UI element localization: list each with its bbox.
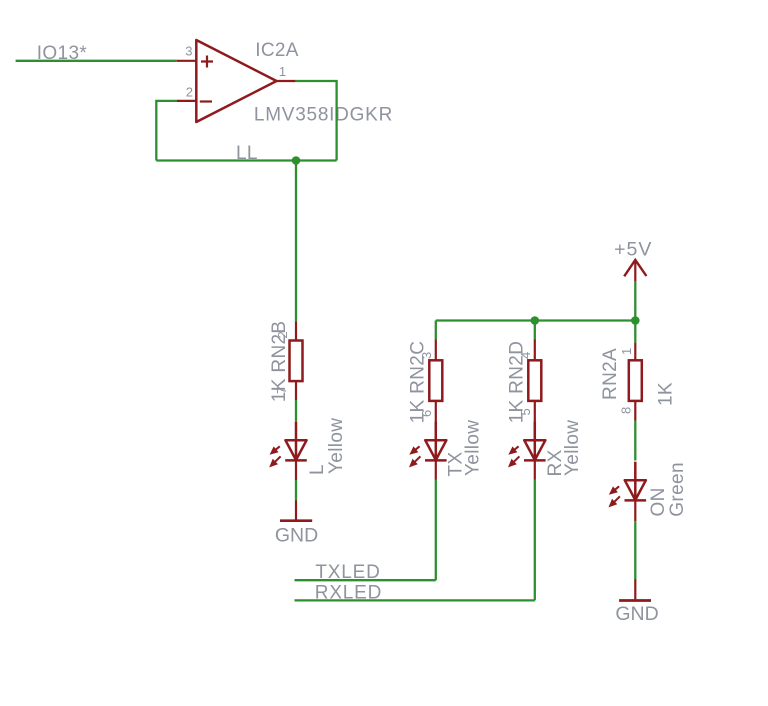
RN2D bottom pin stub	[534, 401, 536, 440]
wire TX LED down	[435, 480, 437, 581]
op-amp IC2A triangle	[196, 40, 276, 122]
junction bus / RN2D column	[531, 316, 540, 325]
svg-text:RN2A: RN2A	[600, 348, 621, 400]
svg-text:8: 8	[619, 407, 634, 414]
wire RN2A to LED ON	[634, 421, 636, 461]
svg-text:RXLED: RXLED	[315, 582, 382, 603]
ground GND pin (L branch)	[295, 501, 297, 520]
svg-text:Yellow: Yellow	[463, 420, 484, 476]
svg-text:3: 3	[419, 352, 434, 359]
wire net LL feedback left segment	[156, 101, 177, 161]
resistor RN2D	[528, 360, 541, 401]
resistor RN2A	[629, 360, 642, 401]
op-amp plus sign	[201, 56, 213, 68]
power symbol +5V arrow	[624, 260, 646, 276]
RN2B top pin stub	[295, 322, 297, 341]
wire net IO13*	[16, 60, 177, 62]
RN2D top pin stub	[534, 340, 536, 361]
svg-text:IC2A: IC2A	[255, 40, 299, 61]
LED ON cathode stub	[634, 500, 636, 521]
svg-text:TXLED: TXLED	[315, 562, 380, 583]
power symbol +5V stem	[634, 260, 636, 281]
wire junction to RN2A	[634, 321, 636, 343]
svg-text:7: 7	[274, 387, 289, 394]
resistor RN2B	[290, 341, 303, 382]
svg-text:1: 1	[279, 64, 286, 79]
svg-text:2: 2	[186, 85, 193, 100]
LED RX (yellow)	[509, 422, 546, 467]
svg-text:3: 3	[185, 44, 192, 59]
LED TX (yellow)	[410, 422, 447, 467]
op-amp minus sign	[200, 100, 212, 102]
svg-text:IO13*: IO13*	[37, 43, 88, 64]
wire net TXLED horizontal	[295, 579, 436, 581]
RN2A bottom pin stub	[634, 401, 636, 421]
wire junction to RN2B	[295, 161, 297, 323]
svg-text:4: 4	[518, 352, 533, 359]
svg-text:2: 2	[275, 331, 290, 338]
wire bus corner down to RN2C	[435, 321, 437, 340]
LED ON (green)	[609, 462, 646, 507]
svg-text:GND: GND	[615, 603, 658, 625]
svg-text:1: 1	[619, 348, 634, 355]
ground bar (L branch)	[280, 519, 312, 522]
svg-text:+5V: +5V	[614, 239, 652, 261]
wire +5V down to junction	[634, 281, 636, 321]
junction bus / +5V column	[631, 316, 640, 325]
wire net RXLED horizontal	[295, 599, 535, 601]
wire net LL bottom segment	[156, 159, 336, 161]
pin 3 stub (non-inverting input)	[177, 60, 197, 62]
RN2A top pin stub	[634, 343, 636, 361]
svg-text:5: 5	[518, 408, 533, 415]
wire bus to RN2D	[534, 321, 536, 340]
svg-text:Yellow: Yellow	[562, 420, 583, 476]
pin 1 stub (output)	[277, 80, 296, 82]
svg-text:L: L	[307, 464, 328, 475]
svg-text:GND: GND	[275, 524, 318, 546]
svg-text:LMV358IDGKR: LMV358IDGKR	[254, 105, 393, 126]
junction at LL / RN2B column	[292, 156, 301, 165]
RN2B bottom pin stub	[295, 381, 297, 400]
wire net LL right vertical segment	[296, 81, 337, 161]
svg-text:Yellow: Yellow	[326, 418, 347, 474]
pin 2 stub (inverting input)	[177, 100, 196, 102]
wire RN2B to LED1	[295, 400, 297, 422]
resistor RN2C	[429, 360, 442, 401]
wire LED1 to GND	[295, 480, 297, 501]
svg-text:6: 6	[419, 410, 434, 417]
wire LED ON to GND	[634, 521, 636, 579]
LED L cathode stub	[295, 460, 297, 480]
RN2C bottom pin stub	[435, 401, 437, 440]
LED TX cathode stub	[435, 460, 437, 479]
svg-text:Green: Green	[667, 462, 688, 517]
svg-text:LL: LL	[236, 143, 258, 164]
ground GND pin (ON branch)	[634, 579, 636, 599]
LED L (yellow)	[270, 422, 307, 467]
wire +5V distribution bus	[436, 319, 636, 321]
RN2C top pin stub	[435, 340, 437, 361]
ground bar (ON branch)	[619, 599, 651, 602]
wire RX LED down	[534, 480, 536, 601]
LED RX cathode stub	[534, 460, 536, 479]
svg-text:1K: 1K	[656, 382, 677, 406]
